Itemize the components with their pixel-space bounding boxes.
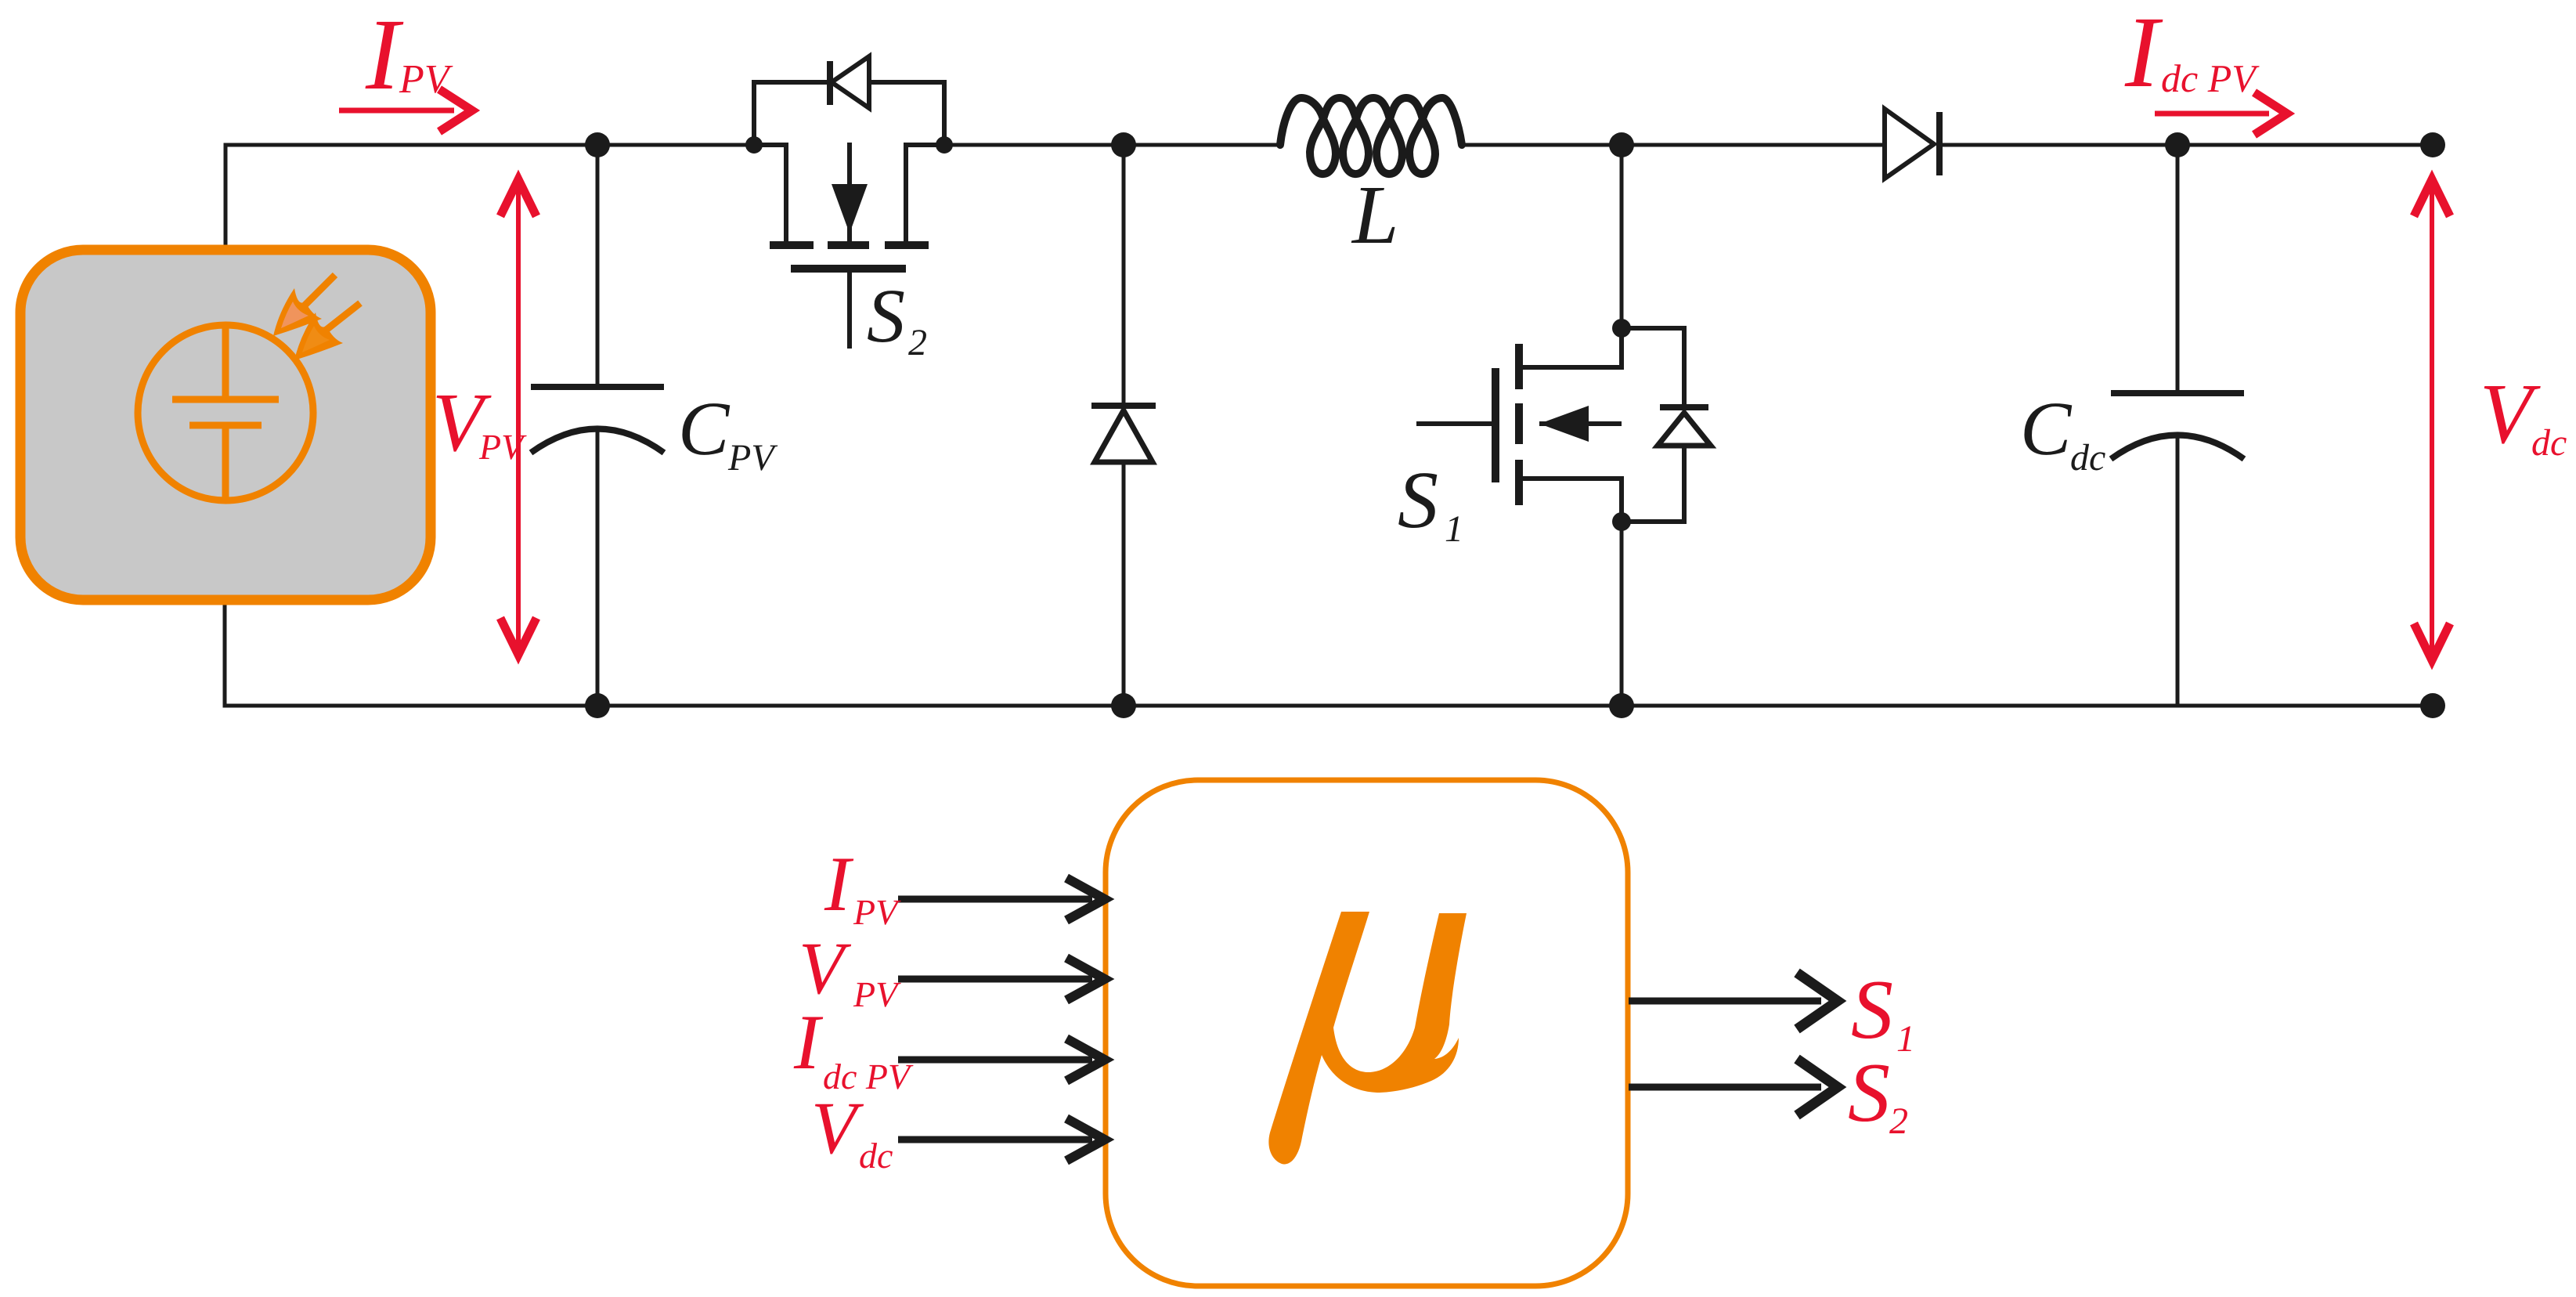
S2 body diode branch wire <box>754 82 944 145</box>
node L/S1 <box>1609 132 1634 157</box>
mu symbol <box>1268 912 1467 1164</box>
wire C_PV top lead <box>596 145 600 387</box>
svg-text:I: I <box>2124 0 2163 109</box>
svg-text:I: I <box>365 0 404 111</box>
S2 body contact bar <box>828 241 869 249</box>
S2 source contact bar <box>770 241 814 249</box>
arrow I_dcPV <box>2155 92 2287 135</box>
svg-text:dc: dc <box>859 1136 893 1176</box>
S1 gate lead <box>1416 421 1492 426</box>
S1 body diode branch wire <box>1622 328 1684 407</box>
PV module box <box>20 250 431 600</box>
capacitor C_PV <box>531 387 664 453</box>
svg-text:dc: dc <box>2070 437 2105 479</box>
capacitor C_dc <box>2111 393 2244 459</box>
input arrow I_PV <box>898 878 1105 920</box>
node C_dc top <box>2165 132 2190 157</box>
svg-text:I: I <box>793 999 824 1086</box>
wire diode D1 branch <box>1122 145 1126 407</box>
S2 gate lead <box>847 273 852 349</box>
wire C_dc bottom lead <box>2176 435 2180 706</box>
S2 drain elbow wire <box>906 145 944 242</box>
node Vdc+ terminal <box>2420 132 2445 157</box>
S2 body arrow line <box>847 143 852 241</box>
wire top rail left segment <box>225 145 754 250</box>
S1 drain elbow wire <box>1522 328 1622 367</box>
wire top rail middle segment <box>944 143 1280 147</box>
PV light arrow 1 <box>273 275 335 336</box>
mosfet S2 <box>754 143 944 349</box>
node S2 left <box>745 136 763 154</box>
wire bottom rail <box>225 600 2433 706</box>
svg-text:PV: PV <box>727 437 777 479</box>
S2 drain contact bar <box>885 241 929 249</box>
wire C_PV bottom lead <box>596 429 600 706</box>
wire S1 source to bottom rail <box>1620 522 1624 706</box>
S2 body arrow head <box>832 184 868 233</box>
node C_PV bottom <box>585 693 610 718</box>
svg-text:dc PV: dc PV <box>2161 56 2260 100</box>
arrow V_PV measure <box>500 179 536 655</box>
svg-text:S: S <box>1848 1046 1890 1140</box>
input arrow V_dc <box>898 1118 1105 1161</box>
S1 source contact bar <box>1515 460 1523 505</box>
S1 body arrow line <box>1539 421 1622 426</box>
node S1 drain <box>1612 319 1631 338</box>
svg-text:S: S <box>867 274 905 359</box>
S2 gate bar <box>791 265 906 273</box>
node C_PV top <box>585 132 610 157</box>
svg-text:PV: PV <box>478 427 527 467</box>
wire top rail output segment <box>1941 143 2433 147</box>
svg-text:PV: PV <box>853 974 901 1014</box>
arrow V_dc measure <box>2414 179 2450 660</box>
output arrow S1 <box>1629 973 1838 1029</box>
svg-text:S: S <box>1851 963 1893 1057</box>
svg-text:V: V <box>811 1086 864 1169</box>
svg-text:V: V <box>799 927 852 1010</box>
S1 source elbow wire <box>1522 479 1622 522</box>
node D1 top <box>1111 132 1136 157</box>
input arrow I_dcPV <box>898 1039 1105 1081</box>
svg-text:2: 2 <box>1889 1100 1908 1142</box>
svg-text:2: 2 <box>908 322 927 363</box>
svg-text:1: 1 <box>1445 508 1463 550</box>
PV current source circle <box>138 325 313 500</box>
wire diode D1 lower lead <box>1122 461 1126 706</box>
svg-text:I: I <box>824 840 854 927</box>
node S1 bottom <box>1609 693 1634 718</box>
diode D2 output <box>1885 109 1939 179</box>
diode D1 <box>1091 406 1156 462</box>
PV light arrow 2 <box>294 303 360 360</box>
microcontroller block <box>1106 780 1628 1286</box>
wire S1 drain branch <box>1620 145 1624 328</box>
inductor L <box>1280 98 1462 174</box>
S2 source elbow wire <box>754 145 786 242</box>
wire C_dc top lead <box>2176 145 2180 393</box>
output arrow S2 <box>1629 1059 1838 1115</box>
PV cell symbol <box>172 326 279 500</box>
svg-text:S: S <box>1398 455 1438 545</box>
arrow I_PV <box>339 89 472 132</box>
wire top rail right segment <box>1462 143 1882 147</box>
mosfet S1 <box>1416 328 1622 522</box>
svg-text:1: 1 <box>1896 1018 1915 1060</box>
node S1 source <box>1612 512 1631 531</box>
svg-text:PV: PV <box>853 892 901 932</box>
svg-text:C: C <box>2020 387 2073 471</box>
S1 body contact bar <box>1515 403 1523 444</box>
svg-text:dc: dc <box>2531 422 2567 464</box>
node D1 bottom <box>1111 693 1136 718</box>
node S2 right <box>936 136 953 154</box>
S1 gate bar <box>1492 368 1499 482</box>
node Vdc- terminal <box>2420 693 2445 718</box>
svg-text:L: L <box>1351 169 1399 262</box>
S1 drain contact bar <box>1515 344 1523 389</box>
S1 body arrow head <box>1539 406 1589 442</box>
S1 body diode <box>1658 407 1711 446</box>
svg-text:PV: PV <box>399 57 453 102</box>
S2 body diode <box>830 56 869 108</box>
input arrow V_PV <box>898 958 1105 1000</box>
svg-text:C: C <box>678 387 731 471</box>
